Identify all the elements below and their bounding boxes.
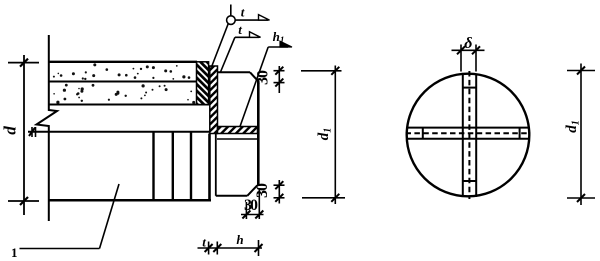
leader 2 : t — [221, 32, 261, 72]
svg-text:30: 30 — [254, 183, 271, 198]
vertical arm left edge — [462, 74, 464, 198]
svg-text:1: 1 — [11, 245, 18, 260]
horizontal arm cap left — [422, 128, 424, 139]
dim 30 bottom horizontal — [241, 190, 264, 219]
pile top face — [48, 61, 197, 63]
right wall — [257, 82, 260, 187]
svg-text:t: t — [241, 5, 245, 20]
svg-text:t: t — [238, 22, 242, 37]
circle outline — [407, 74, 530, 197]
svg-text:δ: δ — [464, 35, 472, 52]
svg-text:30: 30 — [255, 70, 272, 85]
vertical dashed centreline — [468, 71, 470, 199]
pile left break edge — [37, 35, 58, 221]
dim 30 bottom right vertical — [274, 180, 285, 204]
stipple dots band 1 — [53, 63, 190, 80]
svg-text:h: h — [236, 232, 243, 247]
cap outline right — [216, 72, 259, 196]
stipple dots band 2 — [53, 84, 195, 104]
horizontal arm cap right — [519, 128, 521, 139]
end plate delta (hatched horizontal strip) — [218, 127, 258, 134]
bottom chamfer — [247, 185, 257, 196]
dim d1 (left figure) — [301, 66, 345, 205]
top chamfer — [250, 72, 259, 82]
vertical arm cap top — [463, 87, 476, 89]
leader 1 (part mark) — [20, 184, 120, 249]
line under plate — [217, 138, 258, 140]
body vertical 3 — [190, 132, 192, 200]
body vertical 2 — [172, 132, 174, 200]
hatched bar 2 (cap wall section, thickness t) — [210, 66, 218, 134]
hatched bar 1 (band section, thickness t) — [197, 62, 209, 105]
cap wall elevation lines below centreline — [210, 134, 216, 200]
body vertical 1 — [152, 132, 154, 200]
horizontal arm top edge — [408, 127, 529, 129]
centre line with tick — [28, 131, 216, 133]
dim 30 top right — [274, 66, 285, 93]
dim d1 (right figure) — [567, 64, 595, 206]
horizontal arm bottom edge — [408, 138, 529, 140]
dim delta (top of circle) — [452, 45, 485, 72]
band divider line — [48, 81, 197, 83]
band2 bottom line — [48, 104, 209, 106]
dimension d line — [8, 55, 39, 215]
leader 1 : circled t — [212, 5, 270, 68]
leader 3 : h1 — [240, 41, 292, 126]
dim t h bottom — [198, 240, 263, 256]
svg-text:t: t — [202, 235, 206, 250]
cap bottom edge — [216, 195, 248, 197]
vertical arm cap bottom — [463, 180, 476, 182]
cap top edge — [218, 71, 251, 73]
vertical arm right edge — [475, 74, 477, 198]
body bottom — [48, 199, 211, 202]
svg-text:30: 30 — [244, 197, 258, 214]
horizontal dashed centreline — [406, 132, 531, 134]
svg-text:d: d — [1, 126, 20, 135]
